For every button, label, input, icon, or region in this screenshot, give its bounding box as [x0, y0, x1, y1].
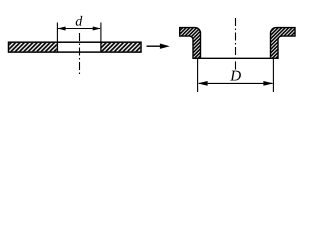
- hole left edge: [56, 42, 58, 52]
- plate hatching left section: [9, 43, 57, 52]
- dimension line d with arrowheads: [57, 27, 101, 31]
- extension line left for D: [197, 59, 199, 92]
- flanged part left section: [180, 28, 201, 59]
- dimension line D with arrowheads: [198, 81, 274, 86]
- extension line left for d: [56, 23, 58, 43]
- label D: [230, 71, 241, 81]
- process arrow: [147, 44, 170, 49]
- flanged part right section: [271, 28, 296, 59]
- extension line right for d: [100, 23, 102, 43]
- extension line right for D: [272, 59, 274, 92]
- centerline of hole: [79, 33, 81, 76]
- rim edge line of flange bore: [201, 57, 271, 59]
- plate hatching right section: [101, 43, 140, 52]
- hole right edge: [100, 42, 102, 52]
- centerline of flanged hole: [235, 18, 237, 71]
- flat blank plate outline: [9, 42, 142, 52]
- label d: [76, 16, 83, 26]
